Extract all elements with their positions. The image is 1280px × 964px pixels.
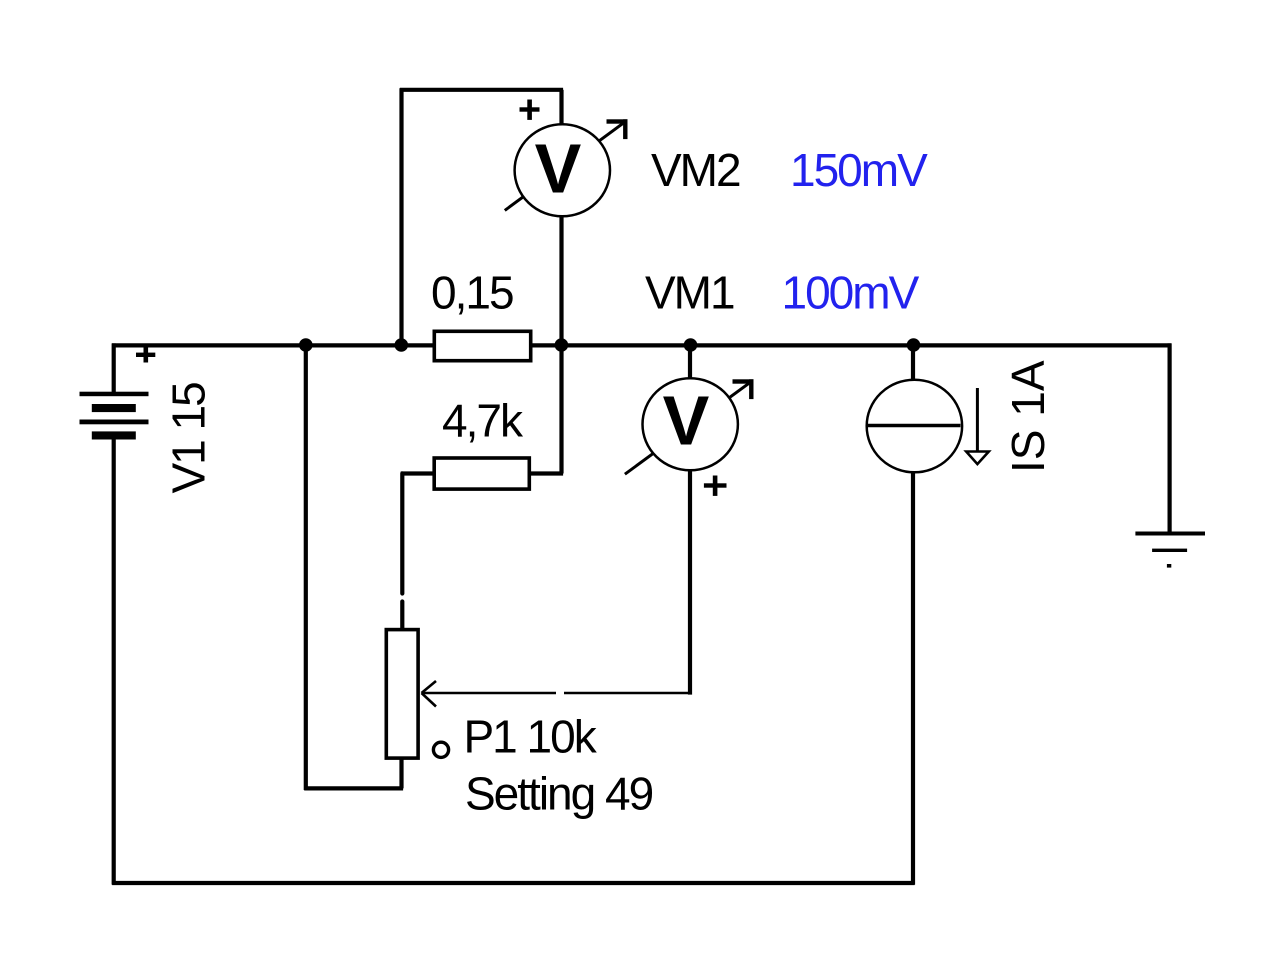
wire 4,7k right horizontal xyxy=(531,471,563,475)
wire VM2 bottom lead xyxy=(559,217,563,345)
svg-text:4,7k: 4,7k xyxy=(442,395,524,447)
wire bottom bus xyxy=(112,881,915,885)
svg-text:V: V xyxy=(535,130,582,208)
wire node3 to 4,7k right xyxy=(559,345,563,474)
svg-text:VM2: VM2 xyxy=(651,144,740,196)
current source IS chord xyxy=(868,424,961,427)
wire right vertical to ground xyxy=(1167,343,1171,533)
battery plus sign xyxy=(136,347,155,362)
current source IS arrow line xyxy=(976,388,979,452)
junction node 5 xyxy=(907,338,921,352)
battery V1 plate short thick 1 xyxy=(92,404,136,412)
ground dot xyxy=(1167,564,1171,568)
svg-text:150mV: 150mV xyxy=(790,144,928,196)
junction node 4 xyxy=(684,338,698,352)
wire VM1 bottom vertical xyxy=(688,469,692,695)
svg-text:V: V xyxy=(663,382,710,460)
wire main horizontal bus xyxy=(112,343,1171,347)
wire 4,7k left down segment 1 xyxy=(400,474,404,594)
svg-text:P1 10k: P1 10k xyxy=(464,711,598,763)
voltmeter VM2 circle xyxy=(515,124,610,216)
voltmeter VM2 arrow head xyxy=(607,119,628,139)
voltmeter VM1 circle xyxy=(643,378,738,470)
wire VM1 top lead xyxy=(688,345,692,378)
current source IS arrow head triangle xyxy=(966,452,989,465)
current source IS circle xyxy=(867,380,962,473)
wire pot bottom lead xyxy=(399,756,403,788)
voltmeter VM1 plus sign xyxy=(704,476,727,496)
battery V1 plate long thin 2 xyxy=(80,420,149,425)
potentiometer P1 terminal circle xyxy=(433,742,448,757)
wire VM2 loop left vertical xyxy=(399,88,403,345)
svg-text:Setting 49: Setting 49 xyxy=(465,768,653,820)
junction node 1 xyxy=(299,338,313,352)
junction node 2 xyxy=(395,338,409,352)
svg-text:VM1: VM1 xyxy=(645,267,734,319)
voltmeter VM1 arrow head xyxy=(733,379,754,399)
wire VM2 loop top horizontal xyxy=(400,88,563,92)
wire pot top lead segment 2 xyxy=(400,602,404,632)
junction node 3 xyxy=(555,338,569,352)
battery V1 plate short thick 2 xyxy=(92,431,136,439)
voltmeter VM2 plus sign xyxy=(520,100,540,120)
svg-text:V1 15: V1 15 xyxy=(163,383,215,494)
wire pot bottom horizontal xyxy=(304,786,403,790)
wire pot wiper horizontal segment 2 xyxy=(564,692,692,695)
battery V1 plate long thin 1 xyxy=(80,392,149,397)
wire VM2 top lead xyxy=(559,90,563,124)
resistor 4,7k body xyxy=(434,458,529,489)
wire pot wiper horizontal segment 1 xyxy=(424,692,557,695)
svg-text:100mV: 100mV xyxy=(782,267,920,319)
ground bar 2 xyxy=(1152,549,1187,552)
voltmeter VM1 arrow shaft xyxy=(625,381,752,474)
wire 4,7k left horizontal xyxy=(401,471,433,475)
wire battery positive top xyxy=(112,343,116,392)
resistor 0,15 body xyxy=(434,331,530,360)
wire battery negative down xyxy=(112,437,116,885)
ground bar 1 xyxy=(1135,532,1205,536)
potentiometer P1 body xyxy=(386,630,418,759)
svg-text:IS 1A: IS 1A xyxy=(1002,360,1054,473)
svg-text:0,15: 0,15 xyxy=(431,267,513,319)
potentiometer P1 wiper arrow head xyxy=(422,681,437,707)
wire IS bottom vertical xyxy=(911,472,915,885)
wire IS top vertical xyxy=(911,345,915,379)
wire left mid vertical node1 down xyxy=(304,345,308,790)
voltmeter VM2 arrow shaft xyxy=(505,122,626,211)
